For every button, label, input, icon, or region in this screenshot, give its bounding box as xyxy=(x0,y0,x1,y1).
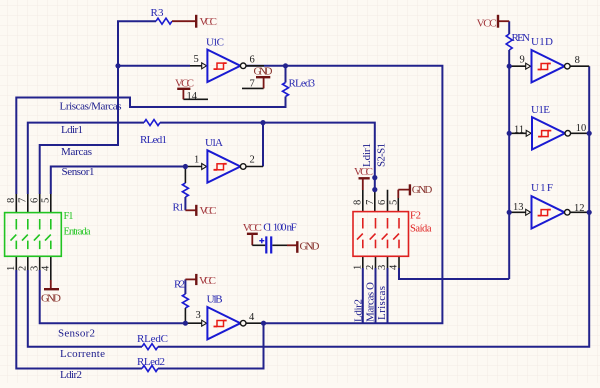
wire Ldir2 net (F1 pin1 through RLed2 to U1B output junction) xyxy=(16,270,263,369)
svg-text:3: 3 xyxy=(377,265,388,270)
wire U1C output to right vertical down to U1B output row xyxy=(246,66,442,323)
wire F2 pin1 down xyxy=(362,268,364,323)
op-amp U1C (schmitt inverter) xyxy=(190,37,264,83)
wire Marcas net (F1 pin6 up, right, up to R3) xyxy=(40,21,156,194)
svg-text:Lriscas: Lriscas xyxy=(376,286,388,320)
svg-text:2: 2 xyxy=(365,265,376,270)
power VCC at F2 pin 8 xyxy=(359,177,370,179)
wire U1A output up to Ldir1 xyxy=(262,123,264,167)
svg-text:Ldir2: Ldir2 xyxy=(353,299,365,322)
wire Lriscas/Marcas net (F1 pin8 up, jog, to RLed3 bottom) xyxy=(16,66,285,194)
resistor R1 xyxy=(184,167,186,184)
svg-text:REN: REN xyxy=(512,32,531,44)
svg-text:F1: F1 xyxy=(64,211,74,222)
svg-text:9: 9 xyxy=(520,55,525,66)
svg-text:100 nF: 100 nF xyxy=(273,222,297,234)
svg-text:Saída: Saída xyxy=(410,224,432,235)
svg-text:12: 12 xyxy=(574,203,585,214)
svg-text:Marcas: Marcas xyxy=(61,146,92,158)
svg-text:U1E: U1E xyxy=(531,104,550,116)
svg-text:U1C: U1C xyxy=(206,37,224,49)
resistor REN xyxy=(506,34,512,50)
svg-text:8: 8 xyxy=(352,200,363,205)
svg-text:4: 4 xyxy=(41,265,52,271)
svg-text:Lcorrente: Lcorrente xyxy=(60,348,105,360)
svg-text:GND: GND xyxy=(300,241,320,253)
wire Sensor1 net (F1 pin5 to U1A input) xyxy=(51,167,186,195)
svg-text:Sensor2: Sensor2 xyxy=(58,328,95,340)
svg-text:VCC: VCC xyxy=(200,205,217,217)
svg-text:U1A: U1A xyxy=(205,137,223,149)
svg-text:5: 5 xyxy=(194,54,199,65)
wire F2 pin3 down xyxy=(387,268,389,323)
svg-text:13: 13 xyxy=(513,202,524,213)
pin stubs F2 bottom xyxy=(363,256,399,268)
svg-text:RLed1: RLed1 xyxy=(140,134,167,146)
svg-text:7: 7 xyxy=(365,200,376,205)
svg-text:Entrada: Entrada xyxy=(64,227,91,238)
power VCC at R1 xyxy=(185,209,196,211)
connector F1 Entrada xyxy=(5,198,91,271)
svg-text:3: 3 xyxy=(196,310,201,321)
op-amp U1A (schmitt inverter) xyxy=(185,137,263,183)
resistor RLed2 xyxy=(142,366,158,372)
svg-text:GND: GND xyxy=(412,184,433,196)
svg-text:VCC: VCC xyxy=(175,78,194,90)
ground GND at F1 pin 4 xyxy=(50,280,52,289)
wire F2 pin4 to U1F input vertical xyxy=(399,268,509,279)
svg-text:Ldir1: Ldir1 xyxy=(61,124,83,136)
wire U1C input branch xyxy=(118,65,190,67)
svg-text:VCC: VCC xyxy=(477,18,497,30)
svg-text:11: 11 xyxy=(514,125,524,136)
svg-text:3: 3 xyxy=(29,266,40,271)
svg-text:2: 2 xyxy=(250,155,255,166)
capacitor C1 100 nF xyxy=(243,222,320,254)
svg-text:1: 1 xyxy=(352,265,363,270)
svg-text:1: 1 xyxy=(194,155,199,166)
svg-text:U1D: U1D xyxy=(531,36,553,48)
connector F2 Saida xyxy=(352,200,432,270)
wire F2 pin2 down xyxy=(375,268,377,323)
svg-text:RLed2: RLed2 xyxy=(137,356,165,368)
svg-text:6: 6 xyxy=(377,200,388,205)
svg-text:7: 7 xyxy=(250,79,255,90)
svg-text:C1: C1 xyxy=(263,222,272,234)
power VCC at R2 xyxy=(185,278,196,280)
svg-text:8: 8 xyxy=(6,198,17,203)
svg-text:U1B: U1B xyxy=(207,294,223,306)
svg-text:1: 1 xyxy=(6,266,17,271)
pin stubs F2 top xyxy=(363,190,399,212)
pin stubs F1 top xyxy=(16,194,51,213)
svg-text:R1: R1 xyxy=(173,202,185,214)
svg-text:Ldir2: Ldir2 xyxy=(60,369,82,381)
svg-text:U1F: U1F xyxy=(531,182,553,194)
ground GND at F2 pin 5 xyxy=(398,190,410,198)
wire Sensor2 net (F1 pin3 to U1B input) xyxy=(40,270,186,323)
svg-text:5: 5 xyxy=(41,198,52,203)
wire Ldir1 net (F1 pin7 up, through RLed1, to F2 pin7) xyxy=(28,123,375,194)
op-amp U1F (schmitt inverter) xyxy=(509,182,589,229)
svg-text:F2: F2 xyxy=(410,211,421,222)
op-amp U1D (schmitt inverter) xyxy=(509,36,589,82)
svg-text:VCC: VCC xyxy=(199,275,216,287)
svg-text:6: 6 xyxy=(29,198,40,203)
svg-text:7: 7 xyxy=(18,198,29,203)
svg-text:4: 4 xyxy=(249,312,255,323)
wire Lcorrente net (F1 pin2 through RLedC to right vertical up to U1D output) xyxy=(28,66,589,347)
svg-text:R2: R2 xyxy=(174,279,185,291)
svg-text:Lriscas/Marcas: Lriscas/Marcas xyxy=(60,101,122,113)
svg-text:VCC: VCC xyxy=(200,16,218,28)
svg-text:RLedC: RLedC xyxy=(137,333,168,345)
resistor R2 xyxy=(184,308,186,323)
svg-text:R3: R3 xyxy=(151,7,165,19)
svg-text:Marcas O: Marcas O xyxy=(365,282,377,322)
resistor R3 xyxy=(156,18,172,24)
pin stubs F1 bottom xyxy=(16,256,51,280)
svg-text:VCC: VCC xyxy=(243,222,262,234)
svg-text:6: 6 xyxy=(250,55,255,66)
svg-text:4: 4 xyxy=(389,264,400,270)
svg-text:Sensor1: Sensor1 xyxy=(62,166,95,178)
op-amp U1E (schmitt inverter) xyxy=(509,104,589,150)
resistor RLed1 xyxy=(144,120,160,126)
svg-text:RLed3: RLed3 xyxy=(289,78,316,90)
svg-text:5: 5 xyxy=(389,200,400,205)
wire REN vertical bus (U1D/E/F inputs) xyxy=(508,21,510,279)
svg-text:GND: GND xyxy=(254,66,273,78)
svg-text:10: 10 xyxy=(576,123,587,134)
power VCC at R3 xyxy=(172,20,196,22)
resistor RLed3 xyxy=(283,83,289,97)
power VCC at U1C pin 14 xyxy=(183,98,208,100)
svg-text:2: 2 xyxy=(18,266,29,271)
svg-text:Ldir1: Ldir1 xyxy=(361,143,373,167)
resistor RLedC xyxy=(142,344,158,350)
svg-text:GND: GND xyxy=(41,293,61,305)
op-amp U1B (schmitt inverter) xyxy=(185,294,263,340)
svg-text:14: 14 xyxy=(187,91,198,102)
power VCC top right xyxy=(498,20,509,22)
svg-text:S2-S1: S2-S1 xyxy=(376,143,388,167)
svg-text:8: 8 xyxy=(575,55,580,66)
power GND at U1C pin 7 xyxy=(242,87,264,89)
